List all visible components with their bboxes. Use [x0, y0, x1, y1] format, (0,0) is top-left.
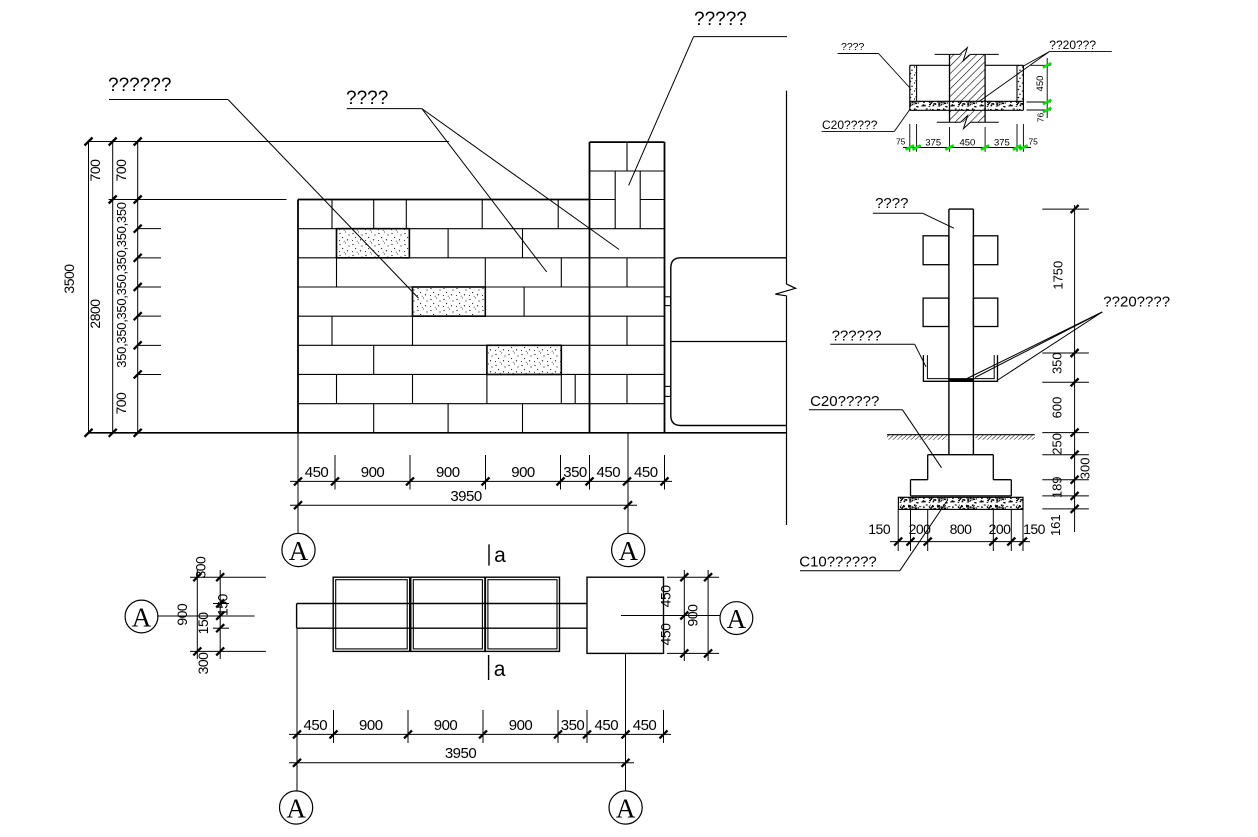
- svg-text:C20?????: C20?????: [822, 118, 878, 132]
- svg-text:A: A: [132, 602, 152, 632]
- svg-text:375: 375: [925, 137, 941, 148]
- left dimension line 700/2800: [87, 138, 117, 437]
- svg-text:450: 450: [657, 623, 673, 646]
- svg-text:300: 300: [193, 556, 209, 579]
- svg-text:150: 150: [1023, 521, 1046, 537]
- plan right grid bubble A: [720, 602, 753, 635]
- svg-text:?????: ?????: [694, 9, 747, 30]
- plan left dimension 900: [174, 570, 201, 659]
- ground line with hatch: [887, 435, 1035, 440]
- wall rail block lower right: [973, 298, 997, 326]
- svg-text:75: 75: [896, 137, 906, 147]
- svg-text:350: 350: [1050, 352, 1065, 374]
- svg-text:C20?????: C20?????: [810, 393, 879, 410]
- svg-text:450: 450: [633, 717, 657, 734]
- detail dimension 450/76 vertical: [1027, 58, 1052, 122]
- svg-text:??20???: ??20???: [1049, 38, 1096, 52]
- top level extension line: [89, 141, 449, 143]
- svg-text:150: 150: [195, 612, 211, 635]
- svg-text:350: 350: [561, 717, 585, 734]
- post top break line: [935, 48, 999, 61]
- elevation overall dimension 3950: [290, 488, 637, 509]
- grid bubble A elevation right: [612, 533, 645, 566]
- label C20 footing leader: [809, 393, 942, 468]
- svg-text:450: 450: [634, 464, 658, 481]
- svg-text:??????: ??????: [108, 75, 171, 96]
- gate hinge lower: [665, 386, 671, 396]
- plan overall dimension 3950: [289, 745, 634, 767]
- svg-text:2800: 2800: [87, 299, 103, 329]
- svg-text:250: 250: [1050, 433, 1065, 455]
- label brick wall leader: [346, 88, 619, 272]
- svg-text:3950: 3950: [450, 488, 482, 505]
- plan panel 1: [333, 577, 410, 651]
- svg-text:900: 900: [361, 464, 385, 481]
- svg-text:A: A: [727, 604, 747, 634]
- svg-text:450: 450: [595, 717, 619, 734]
- plan wall bar: [297, 604, 587, 629]
- svg-text:450: 450: [305, 464, 329, 481]
- wall rail block lower left: [923, 298, 949, 326]
- detail dimension 75/375/450/375/75: [896, 124, 1038, 152]
- concrete post section hatched: [950, 54, 986, 122]
- footing steps: [911, 455, 1012, 496]
- svg-text:450: 450: [1035, 76, 1046, 92]
- svg-text:76: 76: [1036, 113, 1046, 123]
- svg-text:900: 900: [685, 604, 701, 627]
- svg-text:1750: 1750: [1050, 261, 1065, 290]
- plan left grid bubble A: [125, 600, 254, 633]
- svg-text:????: ????: [875, 195, 908, 212]
- svg-text:????: ????: [841, 41, 865, 53]
- wall top extension line: [109, 199, 287, 201]
- left dimension line 700/350x6/700: [113, 138, 161, 437]
- svg-text:161: 161: [1048, 514, 1063, 536]
- svg-text:??????: ??????: [832, 328, 882, 345]
- plan left dimension 300/150/150/300: [190, 556, 266, 674]
- plan bottom dimension chain 450/900/900/900/350/450/450: [289, 628, 671, 791]
- svg-text:200: 200: [989, 521, 1012, 537]
- svg-text:900: 900: [509, 717, 533, 734]
- label pillar flue leader: [629, 9, 787, 185]
- pillar elevation: [590, 142, 665, 433]
- svg-text:900: 900: [511, 464, 535, 481]
- label decorative block leader: [108, 75, 419, 298]
- svg-text:a: a: [494, 544, 506, 567]
- svg-text:3500: 3500: [61, 264, 77, 294]
- svg-text:450: 450: [304, 717, 328, 734]
- post column section: [949, 209, 974, 455]
- svg-text:??20????: ??20????: [1103, 294, 1170, 311]
- elevation bottom dimension chain 450/900/900/900/350/450/450: [290, 433, 672, 533]
- section mark a lower: [489, 655, 506, 681]
- label rebar 20 fan right: [967, 294, 1170, 381]
- stippled brick 1: [337, 229, 410, 258]
- left dimension line 3500: [61, 138, 93, 437]
- plan axis line right: [621, 615, 720, 617]
- svg-text:450: 450: [657, 585, 673, 608]
- plan pillar square: [587, 577, 664, 653]
- svg-text:A: A: [618, 536, 638, 566]
- column section right dimension chain: [1042, 205, 1092, 536]
- plan right dimension 900: [667, 570, 719, 661]
- wall elevation outline: [298, 200, 590, 433]
- svg-text:189: 189: [1050, 476, 1065, 498]
- svg-text:350: 350: [563, 464, 587, 481]
- svg-text:700: 700: [87, 159, 103, 182]
- stippled brick 3: [487, 345, 561, 374]
- plan panel 2: [411, 577, 485, 651]
- label post leader right: [873, 195, 954, 228]
- svg-text:3950: 3950: [445, 745, 477, 762]
- svg-text:900: 900: [434, 717, 458, 734]
- svg-text:700: 700: [113, 159, 129, 182]
- plan bottom grid bubble A right: [609, 791, 642, 824]
- plan panel 3: [485, 577, 559, 651]
- svg-text:450: 450: [959, 137, 975, 148]
- svg-text:300: 300: [195, 652, 211, 675]
- svg-text:450: 450: [597, 464, 621, 481]
- svg-text:900: 900: [359, 717, 383, 734]
- label coping leader: [838, 41, 910, 88]
- svg-text:900: 900: [174, 603, 190, 626]
- wall rail block upper left: [923, 236, 949, 265]
- svg-text:600: 600: [1050, 397, 1065, 419]
- gate leaf with rounded corners: [671, 258, 787, 426]
- bracket channel section: [923, 355, 997, 381]
- svg-text:375: 375: [994, 137, 1010, 148]
- label rebar 20 leader top right: [979, 38, 1112, 102]
- svg-text:700: 700: [113, 392, 129, 415]
- label bracket leader right: [830, 328, 926, 367]
- label C10 slab leader: [799, 500, 948, 571]
- footing bottom dimension 150/200/800/200/150: [868, 509, 1045, 551]
- grid bubble A elevation left: [282, 533, 315, 566]
- plan bottom grid bubble A left: [280, 791, 313, 824]
- svg-text:????: ????: [346, 88, 388, 109]
- post bottom break line: [937, 116, 999, 129]
- label C20 leader top right detail: [822, 110, 910, 133]
- svg-text:150: 150: [868, 521, 891, 537]
- svg-text:350,350,350,350,350,350,350: 350,350,350,350,350,350,350: [114, 202, 129, 367]
- brick course lines: [298, 229, 665, 404]
- svg-text:900: 900: [436, 464, 460, 481]
- svg-text:a: a: [494, 658, 506, 681]
- base line: [89, 432, 787, 434]
- svg-text:150: 150: [215, 593, 231, 616]
- gate hinge upper: [665, 297, 671, 306]
- svg-text:A: A: [289, 536, 309, 566]
- wall break cut line: [775, 91, 795, 525]
- section mark a upper: [489, 544, 506, 567]
- svg-text:A: A: [286, 793, 306, 823]
- svg-text:800: 800: [950, 521, 973, 537]
- svg-text:C10??????: C10??????: [799, 554, 877, 571]
- svg-text:300: 300: [1078, 458, 1093, 480]
- C10 base slab stippled: [898, 497, 1023, 509]
- wall rail block upper right: [973, 236, 997, 265]
- brick vertical joints: [332, 200, 575, 433]
- svg-text:75: 75: [1028, 136, 1038, 146]
- stippled brick 2: [413, 287, 486, 316]
- coping channel outline: [910, 65, 1024, 110]
- coping channel stipple fill: [910, 65, 1024, 110]
- plan right dimension 450/450: [657, 570, 688, 661]
- svg-text:A: A: [616, 793, 636, 823]
